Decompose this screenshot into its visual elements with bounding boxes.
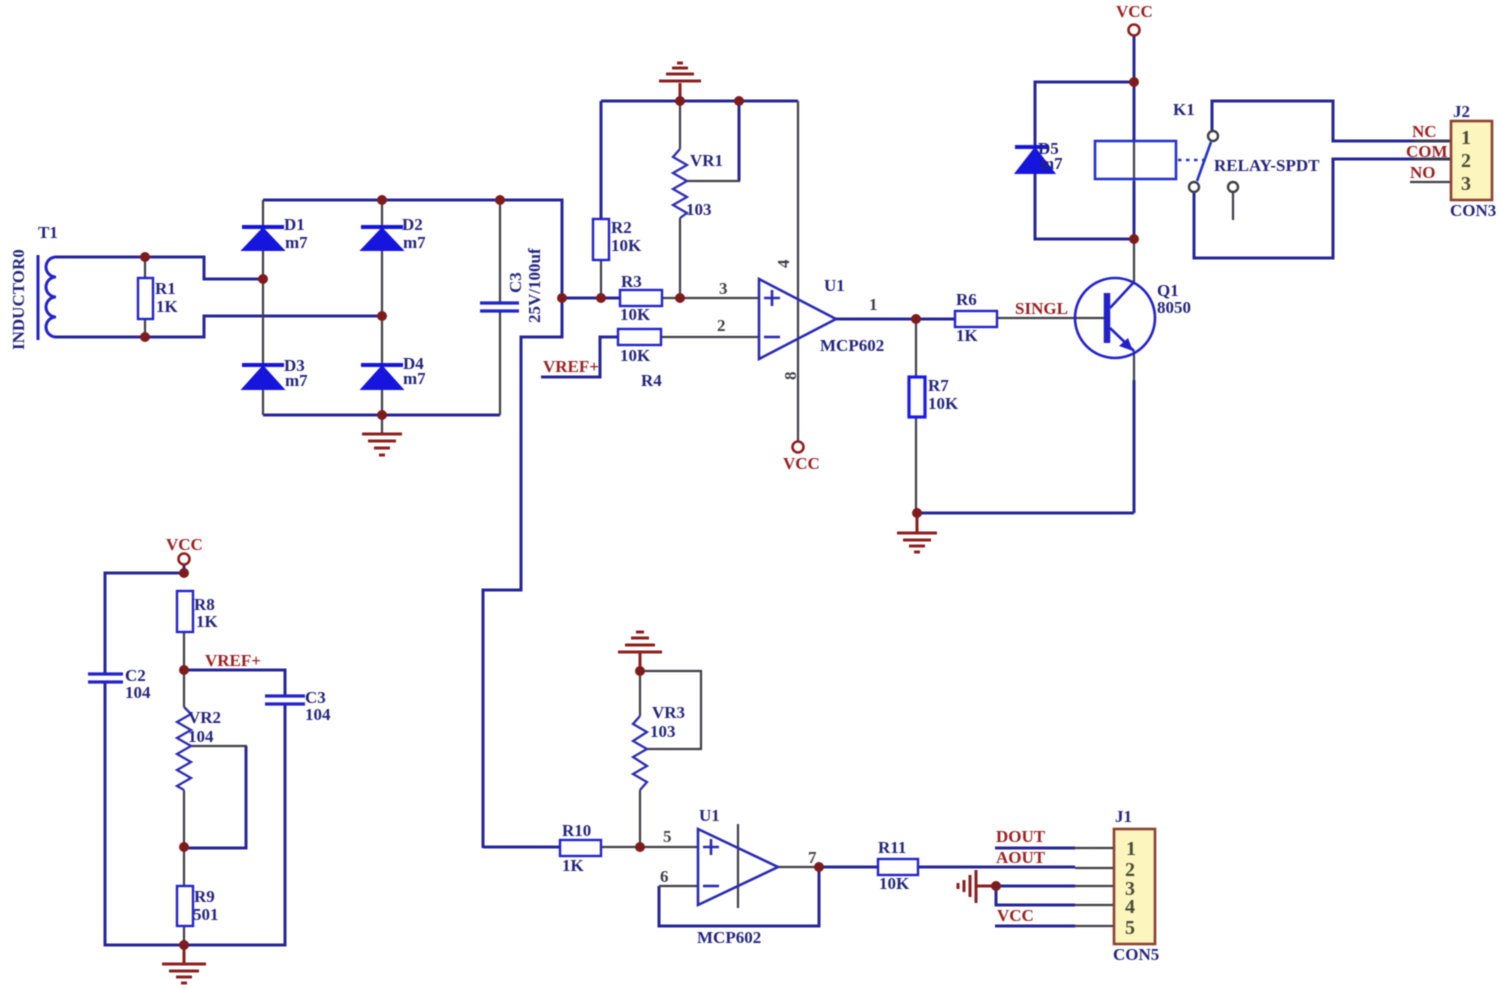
svg-text:25V/100uf: 25V/100uf xyxy=(525,248,544,323)
svg-text:10K: 10K xyxy=(879,874,910,893)
svg-text:NC: NC xyxy=(1412,122,1437,141)
svg-text:10K: 10K xyxy=(611,236,642,255)
svg-text:2: 2 xyxy=(717,316,726,335)
svg-text:VCC: VCC xyxy=(1116,2,1153,21)
svg-text:R7: R7 xyxy=(928,376,949,395)
svg-text:MCP602: MCP602 xyxy=(697,928,761,947)
svg-text:R6: R6 xyxy=(956,290,977,309)
svg-text:J1: J1 xyxy=(1115,807,1132,826)
svg-text:m7: m7 xyxy=(285,371,308,390)
svg-text:VREF+: VREF+ xyxy=(543,357,599,376)
svg-text:MCP602: MCP602 xyxy=(820,336,884,355)
svg-text:10K: 10K xyxy=(620,346,651,365)
svg-text:R4: R4 xyxy=(641,371,662,390)
svg-text:m7: m7 xyxy=(403,233,426,252)
svg-text:1: 1 xyxy=(1126,838,1136,860)
svg-text:R1: R1 xyxy=(155,279,176,298)
svg-text:104: 104 xyxy=(125,683,151,702)
svg-text:VR1: VR1 xyxy=(690,151,723,170)
svg-text:NO: NO xyxy=(1410,163,1436,182)
svg-text:U1: U1 xyxy=(699,806,720,825)
svg-text:U1: U1 xyxy=(824,276,845,295)
svg-text:VR2: VR2 xyxy=(188,708,221,727)
svg-text:6: 6 xyxy=(660,867,669,886)
svg-text:RELAY-SPDT: RELAY-SPDT xyxy=(1214,156,1320,175)
svg-text:AOUT: AOUT xyxy=(996,848,1046,867)
svg-text:INDUCTOR0: INDUCTOR0 xyxy=(9,249,28,350)
svg-text:104: 104 xyxy=(188,727,214,746)
svg-text:10K: 10K xyxy=(928,394,959,413)
svg-text:1: 1 xyxy=(869,295,878,314)
svg-text:7: 7 xyxy=(808,848,817,867)
svg-text:3: 3 xyxy=(1461,173,1471,195)
svg-text:4: 4 xyxy=(1125,896,1135,918)
svg-text:VREF+: VREF+ xyxy=(205,651,261,670)
svg-text:4: 4 xyxy=(774,259,793,268)
svg-text:1K: 1K xyxy=(196,612,219,631)
svg-text:K1: K1 xyxy=(1173,100,1195,119)
svg-text:R9: R9 xyxy=(194,887,215,906)
svg-text:3: 3 xyxy=(719,279,728,298)
svg-text:1K: 1K xyxy=(956,326,979,345)
svg-text:103: 103 xyxy=(686,200,712,219)
svg-text:103: 103 xyxy=(650,722,676,741)
svg-text:m7: m7 xyxy=(285,233,308,252)
svg-text:COM: COM xyxy=(1406,142,1448,161)
svg-text:R3: R3 xyxy=(621,272,642,291)
svg-text:VCC: VCC xyxy=(783,454,820,473)
svg-text:J2: J2 xyxy=(1453,102,1470,121)
svg-text:8050: 8050 xyxy=(1157,298,1191,317)
svg-text:1K: 1K xyxy=(156,297,179,316)
svg-text:8: 8 xyxy=(781,372,800,381)
svg-text:5: 5 xyxy=(663,827,672,846)
svg-text:2: 2 xyxy=(1461,150,1471,172)
svg-text:m7: m7 xyxy=(403,369,426,388)
svg-text:D1: D1 xyxy=(284,215,305,234)
svg-text:R10: R10 xyxy=(562,821,591,840)
svg-text:D2: D2 xyxy=(402,215,423,234)
svg-text:10K: 10K xyxy=(620,305,651,324)
svg-text:104: 104 xyxy=(305,705,331,724)
svg-text:SINGL: SINGL xyxy=(1015,299,1068,318)
svg-text:R11: R11 xyxy=(878,838,906,857)
svg-text:VCC: VCC xyxy=(166,535,203,554)
svg-text:501: 501 xyxy=(193,905,219,924)
svg-text:T1: T1 xyxy=(38,223,58,242)
svg-text:5: 5 xyxy=(1125,917,1135,939)
svg-text:DOUT: DOUT xyxy=(996,827,1046,846)
svg-text:VCC: VCC xyxy=(997,906,1034,925)
svg-text:R2: R2 xyxy=(611,218,632,237)
svg-text:1K: 1K xyxy=(562,856,585,875)
svg-text:1: 1 xyxy=(1461,127,1471,149)
svg-text:CON3: CON3 xyxy=(1450,201,1496,220)
svg-text:VR3: VR3 xyxy=(652,703,685,722)
svg-text:CON5: CON5 xyxy=(1113,945,1159,964)
svg-text:C3: C3 xyxy=(506,272,525,293)
svg-text:m7: m7 xyxy=(1040,154,1063,173)
